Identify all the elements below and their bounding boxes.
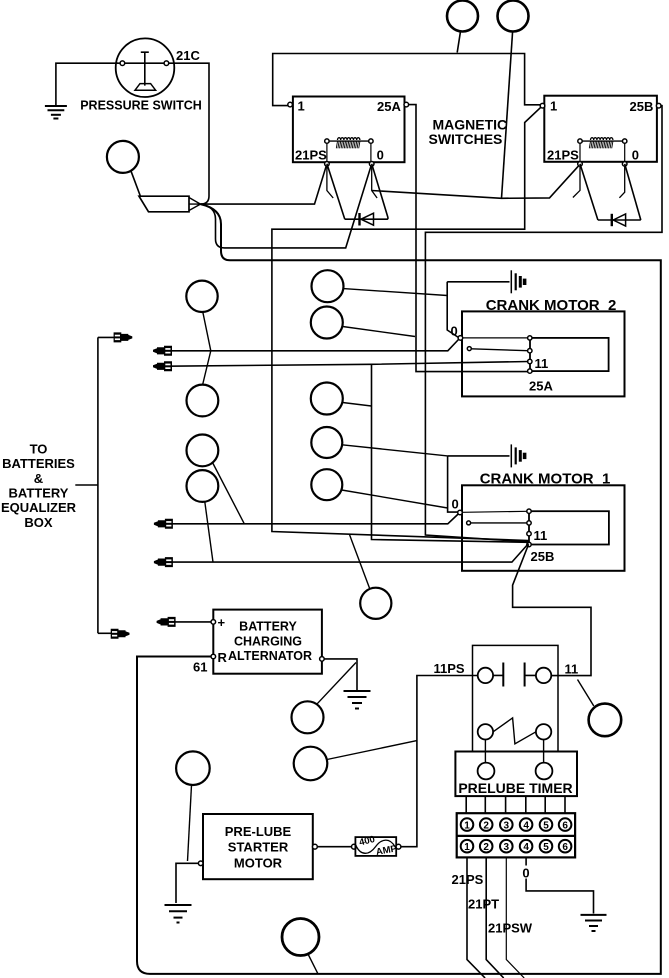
wire b: fan to left magnetic switch 21PS terminal: [201, 164, 327, 204]
leader D to W4: [205, 502, 213, 562]
connector fan lines: [189, 198, 201, 211]
svg-text:0: 0: [522, 866, 529, 881]
wire W2: harness to crank2 terminal 11: [155, 362, 529, 367]
wire 25A: left switch 25A terminal down to crank motor 2 terminal 25A: [405, 105, 529, 372]
leader E1 to crank2 ground corner: [343, 289, 447, 296]
crank motor 1 outer box: [462, 485, 625, 571]
crank motor 1 inner box: [529, 511, 609, 544]
svg-text:3: 3: [504, 820, 510, 831]
svg-text:BATTERY: BATTERY: [239, 620, 297, 634]
connector circle F2 (right of alternator, on crank1 bundle): [360, 588, 391, 619]
svg-text:1: 1: [464, 820, 470, 831]
leader E5 to crank1 0 area: [342, 490, 448, 508]
wire from circle T1 to top bus: [457, 31, 460, 52]
svg-text:11: 11: [534, 528, 548, 543]
MS2 leg to diode anode: [580, 164, 598, 220]
prelube contact box: [473, 645, 559, 751]
wire: stub to inner terminal 2: [471, 349, 527, 351]
wire 25B: right switch 25B terminal loop to crank motor 1 terminal 25B: [425, 106, 662, 542]
plug arrow W4 (left-pointing): [154, 557, 173, 567]
svg-text:BATTERIES: BATTERIES: [2, 456, 75, 471]
plug arrow (right-pointing, bottom): [111, 629, 130, 639]
prelube timer box: [455, 752, 577, 797]
svg-text:6: 6: [562, 842, 568, 853]
label TO BATTERIES & BATTERY EQUALIZER BOX: [1, 442, 77, 530]
wire: stub to crank1 inner terminal 2: [471, 522, 527, 524]
wire: ground corner down to crank1 "0" terminal: [448, 456, 458, 512]
plug arrow at + wire (left-pointing): [157, 617, 176, 627]
pressure switch diaphragm funnel: [135, 84, 156, 91]
svg-text:MOTOR: MOTOR: [234, 855, 283, 870]
svg-text:3: 3: [504, 842, 510, 853]
leader E4 to crank1 ground corner: [342, 445, 448, 456]
svg-text:SWITCHES: SWITCHES: [429, 131, 503, 147]
top connector circle T1: [447, 1, 478, 32]
motor text: [225, 824, 292, 870]
diode D1 across MS1 coil: [345, 213, 388, 226]
svg-text:5: 5: [543, 842, 549, 853]
alternator R terminal: [211, 654, 216, 659]
MS1 left flag stub: [327, 166, 333, 198]
svg-text:25A: 25A: [529, 379, 553, 394]
svg-text:21PS: 21PS: [547, 148, 579, 163]
terminal strip outline: [457, 813, 575, 857]
MS2 left flag stub: [573, 166, 580, 198]
ground G5 (strip 0): [581, 915, 607, 931]
alternator + terminal: [211, 620, 216, 625]
svg-text:25B: 25B: [630, 99, 654, 114]
contact links and bars: [493, 674, 536, 676]
svg-text:1: 1: [550, 99, 557, 114]
MS1 leg to diode cathode: [372, 164, 388, 219]
connector bubble circle (right of contact): [589, 704, 622, 737]
ticks from timer to terminal strip: [466, 796, 565, 813]
svg-text:2: 2: [483, 842, 489, 853]
crank1 inner terminal row: [527, 509, 531, 513]
wire 21PT from strip terminal 2: [486, 857, 504, 978]
connector circle B (col1): [187, 385, 219, 417]
leader F4 up to 11PS vertical: [327, 741, 417, 760]
svg-text:25B: 25B: [531, 549, 555, 564]
svg-text:0: 0: [451, 323, 458, 338]
svg-text:BOX: BOX: [24, 515, 53, 530]
pressure switch right terminal: [164, 61, 169, 66]
wire d: fan loop around page to alternator R (right edge + bottom edge): [137, 204, 661, 974]
connector circle A (col1): [186, 281, 217, 312]
crank2 internal stub terminal: [467, 347, 471, 351]
leader E3: [343, 403, 372, 407]
crank2 inner terminal row: [528, 336, 532, 340]
connector circle F1 (below alternator): [292, 701, 324, 733]
left harness vertical bus: [97, 337, 99, 633]
wire 21PSW from strip terminal 3: [506, 857, 524, 978]
connector circle F3 (above motor): [176, 751, 210, 785]
plug arrow W2 (left-pointing): [153, 361, 172, 371]
MS2 bottom terminal 0-side: [622, 162, 627, 167]
battery charging alternator box: [213, 610, 322, 674]
wire: tee from W2 down to crank1 terminals: [372, 364, 529, 542]
connector bubble circle (left, unlabeled): [107, 141, 139, 173]
ground G4 (alternator): [344, 691, 371, 709]
connector circle E4 (col2): [311, 427, 342, 458]
svg-text:61: 61: [193, 659, 207, 674]
svg-text:+: +: [218, 615, 226, 630]
diode D2 across MS2 coil: [598, 214, 641, 226]
MS1 right flag stub: [372, 166, 377, 198]
svg-text:0: 0: [377, 148, 384, 163]
wire 21PS from strip terminal 1: [467, 857, 485, 978]
wire to right-plug bottom: [98, 632, 112, 634]
pressure switch left terminal: [120, 61, 125, 66]
svg-text:11: 11: [535, 356, 549, 371]
crank motor 2 inner box: [530, 338, 609, 371]
leader F1 to ground wire corner: [317, 663, 356, 705]
svg-text:21PS: 21PS: [452, 872, 484, 887]
pre-lube starter motor box: [203, 814, 313, 879]
svg-text:PRE-LUBE: PRE-LUBE: [225, 824, 292, 839]
svg-text:PRELUBE TIMER: PRELUBE TIMER: [458, 780, 572, 796]
MS1 bottom terminal 0-side: [369, 162, 374, 167]
wire: right switch "1" terminal loop down-left to crank motor 1 terminals: [272, 106, 543, 541]
MS1 terminal 25A: [404, 102, 409, 107]
connector circle E1 (col2): [312, 270, 344, 302]
wire 21C: pressure switch right terminal down to connector fan: [175, 63, 209, 204]
alternator text: [228, 620, 312, 664]
MS1 bottom terminal 21PS-side: [325, 162, 330, 167]
fuse F 400 AMP: [352, 834, 401, 858]
MS1 leg to diode anode: [327, 164, 345, 219]
heater right circle: [536, 724, 551, 739]
svg-text:21PS: 21PS: [295, 148, 327, 163]
wire: motor left to ground: [176, 863, 198, 903]
crank2 "0" terminal: [458, 336, 463, 341]
svg-text:11: 11: [565, 662, 579, 677]
ground G3 (rotated, above crank motor 1): [448, 444, 525, 467]
leader bubble: [578, 680, 594, 707]
wire: ground corner down to crank2 "0" terminal: [447, 282, 458, 338]
top connector circle T2: [498, 1, 529, 32]
leader F5 to bottom bus: [308, 954, 318, 973]
connector lug (parallelogram): [139, 196, 189, 212]
wire 0 from strip terminal 4 to ground: [526, 857, 593, 913]
timer terminal circles: [478, 763, 495, 780]
wire from TO BATTERIES text to bus: [75, 484, 98, 486]
svg-text:4: 4: [523, 842, 529, 853]
svg-text:6: 6: [562, 820, 568, 831]
svg-text:STARTER: STARTER: [228, 840, 289, 855]
svg-text:0: 0: [452, 497, 459, 512]
connector circle E2 (col2): [311, 307, 343, 339]
svg-text:&: &: [34, 471, 43, 486]
wire: pressure switch left lead to ground: [56, 63, 118, 105]
motor left terminal: [198, 861, 203, 866]
stubs from contact circles down into timer: [485, 740, 543, 763]
connector circle F5 (bottom): [282, 919, 319, 956]
wire to + terminal: [172, 621, 211, 623]
svg-text:4: 4: [523, 820, 529, 831]
leader F2 up to bundle: [350, 535, 370, 589]
leader F3 to motor left wire: [188, 785, 192, 861]
MS2 right flag stub: [619, 166, 624, 198]
MS2 leg to diode cathode: [625, 164, 641, 220]
svg-text:1: 1: [464, 842, 470, 853]
svg-text:EQUALIZER: EQUALIZER: [1, 500, 77, 515]
MS2 terminal 1: [540, 103, 545, 108]
wire from circle T2 down to 21PS wire: [502, 31, 513, 198]
plug arrow W1 (left-pointing): [153, 346, 172, 356]
contact left circle: [478, 668, 493, 683]
terminal strip row 1 circled numbers: [461, 818, 572, 831]
plug arrow W3 (left-pointing): [154, 519, 173, 529]
leader E2: [343, 327, 415, 337]
ground G1 (below pressure switch left lead): [45, 106, 67, 119]
svg-text:21C: 21C: [176, 48, 200, 63]
wire: crank2 0 to inner terminal 1: [463, 337, 528, 339]
top bus wire linking both "1" terminals: [273, 54, 541, 106]
svg-text:1: 1: [298, 99, 305, 114]
svg-text:5: 5: [543, 820, 549, 831]
svg-text:21PSW: 21PSW: [488, 921, 533, 936]
svg-text:CHARGING: CHARGING: [234, 634, 302, 648]
svg-text:11PS: 11PS: [434, 661, 465, 676]
leader A down to W1 and circle B: [203, 312, 211, 385]
heater zigzag: [493, 718, 536, 744]
wire to right-plug top: [98, 336, 116, 338]
crank motor 2 outer box: [462, 311, 625, 396]
connector circle C (col1): [187, 435, 219, 467]
plug arrow (right-pointing, top): [114, 332, 133, 342]
alternator right terminal: [320, 657, 325, 662]
svg-text:TO: TO: [30, 442, 48, 457]
terminal strip divider: [457, 835, 575, 837]
ground G6 (motor): [165, 905, 192, 923]
svg-text:2: 2: [483, 820, 489, 831]
leader from bubble to connector lug: [131, 171, 141, 196]
svg-text:21PT: 21PT: [468, 897, 499, 912]
contact right circle: [536, 668, 551, 683]
connector circle D (col1): [187, 470, 219, 502]
connector circle F4 (above fuse): [294, 747, 328, 781]
wire 11PS into contact: [401, 676, 478, 847]
svg-text:ALTERNATOR: ALTERNATOR: [228, 649, 312, 663]
MS2 terminal 25B: [656, 103, 661, 108]
crank1 "0" terminal: [458, 510, 463, 515]
motor right terminal: [313, 844, 318, 849]
connector circle E3 (col2): [311, 383, 343, 415]
wire: right terminal to ground: [324, 659, 357, 690]
svg-text:25A: 25A: [377, 99, 401, 114]
MS1 terminal 1: [288, 102, 293, 107]
svg-text:R: R: [218, 650, 228, 665]
wire W4: harness to crank1 terminal 25B: [156, 544, 529, 563]
magnetic switch MS1 box: [293, 97, 405, 163]
wire: crank1 25B terminal down to prelube contact 11: [513, 545, 591, 676]
pressure switch PS body circle: [116, 38, 175, 97]
magnetic switch MS2 box: [544, 96, 657, 162]
svg-text:BATTERY: BATTERY: [9, 486, 69, 501]
wire: crank1 0 to inner terminal 1: [462, 511, 527, 512]
pressure switch contact bar: [116, 62, 175, 64]
wire motor to fuse: [317, 846, 351, 848]
MS2 coil: [578, 138, 627, 162]
MS2 bottom terminal 21PS-side: [578, 162, 583, 167]
ground G2 (rotated, above crank motor 2): [447, 270, 524, 293]
connector circle E5 (col2): [311, 469, 342, 500]
heater left circle: [478, 724, 493, 739]
wire W1: harness to crank2 "0": [155, 340, 459, 351]
pressure switch stem: [141, 52, 149, 85]
wire W3: harness to crank1 "0": [156, 514, 458, 524]
svg-text:PRESSURE SWITCH: PRESSURE SWITCH: [80, 99, 202, 113]
terminal strip row 2 circled numbers: [461, 840, 572, 853]
wire 21PS link: left switch 0-flag to right switch 21PS terminal: [372, 164, 580, 198]
MS1 coil: [325, 138, 373, 162]
leader C to W3: [213, 463, 245, 524]
svg-text:0: 0: [632, 148, 639, 163]
crank1 internal stub terminal: [467, 521, 471, 525]
wire c: fan to left magnetic switch 0 terminal (lower loop): [201, 164, 372, 248]
